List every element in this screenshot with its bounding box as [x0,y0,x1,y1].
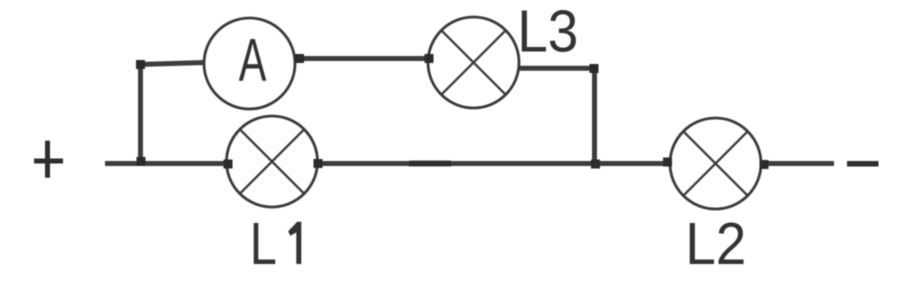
svg-text:A: A [239,26,267,94]
svg-text:L2: L2 [685,211,746,277]
svg-text:L: L [250,212,277,277]
svg-text:L3: L3 [517,0,578,65]
